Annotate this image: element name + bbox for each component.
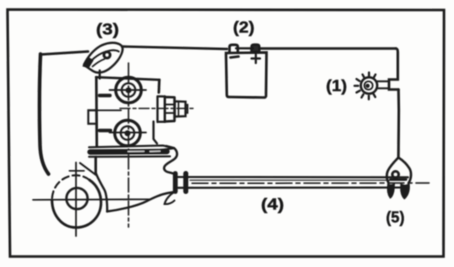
boss B1 thick left stub: [100, 94, 111, 97]
svg-text:(4): (4): [261, 197, 284, 214]
wire: right vertical drop from socket to clip: [397, 90, 400, 158]
battery (2) positive post: [252, 45, 260, 52]
wire: right vertical drop to bulb socket: [389, 49, 399, 90]
tie rod (4) top line: [178, 176, 408, 178]
svg-text:(5): (5): [386, 210, 405, 227]
boss B1 inner circle: [122, 83, 136, 97]
boss B1 outer circle: [116, 77, 142, 103]
fitting centerline dash-dot: [120, 107, 196, 109]
housing vertical centerline: [128, 63, 130, 227]
clip (5) inner grip line: [391, 178, 407, 181]
boss B1 center dot: [126, 87, 132, 93]
terminal tag (3) screw circle: [104, 52, 110, 58]
boss B2 horizontal centerline: [110, 132, 147, 134]
rod collar left bar: [173, 174, 178, 192]
clip (5) right jaw: [401, 184, 409, 199]
battery (2) minus mark: [231, 57, 239, 58]
wire: thick left drop from terminal down housing side: [40, 54, 49, 174]
arm lower notch curve: [165, 192, 176, 205]
clip (5) body outline: [387, 158, 399, 184]
body right wavy contour (flange to arm): [164, 146, 177, 175]
mounting flange top line: [89, 146, 174, 151]
hex fitting nut: [165, 97, 175, 122]
housing: right lower edge below fitting: [154, 122, 158, 144]
boss B2 outer circle: [115, 120, 141, 146]
wire from housing terminal to battery (left segment): [41, 52, 89, 55]
housing: left side protrusion: [88, 110, 96, 124]
bulb (1) filament dot: [366, 84, 370, 88]
terminal tag (3) arrow tip: [83, 58, 93, 68]
terminal tag (3) outline: [84, 43, 123, 73]
tie rod (4) inner line: [190, 179, 405, 181]
boss B2 thick left stub: [100, 129, 111, 132]
body edge curve to lower body: [96, 173, 108, 212]
tie rod (4) bottom line: [178, 186, 408, 188]
wire behind battery posts: [236, 47, 253, 49]
flange white streaks: [128, 150, 160, 152]
housing: left edge: [95, 77, 98, 146]
boss B2 center dot: [125, 130, 131, 136]
hub inner circle: [66, 188, 87, 209]
clip (5) pivot circle: [392, 171, 398, 177]
housing: right upper edge: [158, 80, 161, 93]
bulb (1) inner circle: [364, 81, 372, 89]
hub vertical centerline: [75, 163, 77, 237]
boss B1 horizontal centerline: [110, 89, 147, 91]
housing mid horizontal line: [88, 109, 121, 111]
terminal tag (3) inner lower line: [93, 59, 105, 67]
battery (2) body: [226, 53, 267, 98]
battery (2) plus mark: [252, 55, 261, 64]
bulb socket lines: [377, 81, 390, 88]
hex fitting facet lines: [165, 105, 175, 114]
terminal tag (3) stem to housing: [99, 71, 101, 79]
boss B2 inner circle: [121, 126, 135, 140]
hub outer circle dashed arc: [52, 175, 90, 200]
hex fitting small cylinder: [175, 101, 186, 116]
terminal tag (3) inner leaf line: [90, 50, 119, 62]
rod collar right bar: [183, 174, 188, 192]
svg-text:(1): (1): [326, 78, 347, 95]
hex fitting base collar: [158, 96, 166, 122]
mounting flange bottom line: [89, 155, 170, 157]
clip (5) left jaw: [388, 184, 395, 198]
battery (2) negative post: [230, 45, 238, 52]
hub horizontal centerline: [33, 198, 149, 201]
wire from terminal tag to battery: [123, 47, 228, 50]
housing: top edge: [96, 77, 160, 80]
bulb (1) rays: [355, 73, 376, 100]
body contour hub to flange diagonal: [80, 163, 96, 175]
wire from battery to top-right corner: [260, 47, 397, 49]
svg-text:(2): (2): [233, 20, 255, 37]
hex fitting cylinder facets: [178, 102, 180, 117]
svg-text:(3): (3): [96, 22, 119, 39]
hex fitting tip stub: [186, 105, 188, 113]
bulb (1) outer circle: [361, 77, 377, 93]
body left edge below flange: [94, 157, 97, 173]
hub centerline tick: [70, 170, 85, 172]
tie rod (4) dash-dot centerline: [192, 182, 429, 184]
hub outer circle solid arc: [52, 180, 101, 228]
body bottom S contour to arm: [107, 192, 174, 212]
mounting flange black band: [90, 149, 167, 155]
